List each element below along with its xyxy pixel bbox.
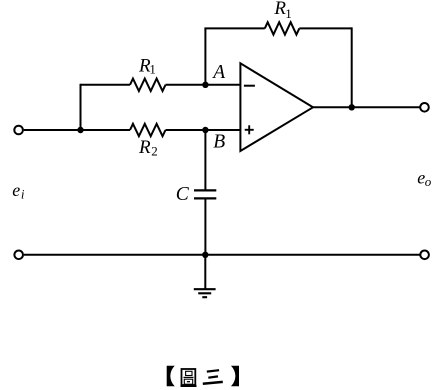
op-amp plus input symbol vertical [248,125,250,134]
ground bar 3 [202,296,207,298]
caption bracket right 】 [231,366,239,387]
svg-text:C: C [176,184,190,205]
ground bar 1 [194,288,216,290]
svg-text:R: R [138,137,151,158]
wire node B down to capacitor [204,130,206,190]
wire row A to op-amp minus input [166,84,241,86]
resistor R1 input zigzag [130,79,166,91]
wire feedback right vertical down to output node [351,27,353,107]
terminal input top circle [14,126,23,135]
op-amp plus input symbol horizontal [245,129,254,131]
ground bar 2 [198,292,211,294]
wire node A vertical to top rail [204,28,206,84]
node A junction [202,82,208,88]
node output junction [349,104,355,110]
terminal output bottom circle [420,251,429,260]
op-amp U1 triangle [240,63,313,151]
svg-text:1: 1 [285,6,292,21]
label R1 input [138,56,156,77]
svg-text:A: A [211,62,225,83]
label R2 [138,137,158,158]
wire output [313,106,420,108]
wire top rail right segment [299,27,351,29]
resistor R1 feedback zigzag [265,22,300,34]
capacitor C top plate [194,189,216,191]
wire input lead from left terminal [24,129,130,131]
node input junction [77,127,83,133]
wire input branch vertical [80,84,82,130]
label R1 feedback [273,0,291,21]
wire top rail left segment [204,27,264,29]
terminal input bottom circle [14,251,23,260]
wire row B to op-amp plus input [166,129,241,131]
wire bottom rail [24,254,420,256]
caption character 三 [203,370,223,384]
svg-text:o: o [425,174,432,189]
capacitor C bottom plate [194,197,216,199]
wire capacitor to bottom rail [204,198,206,254]
wire row A left lead [81,84,131,86]
resistor R2 zigzag [130,124,166,136]
node bottom rail junction [202,252,208,258]
op-amp minus input symbol [244,85,255,87]
label e_i [12,180,25,202]
svg-text:2: 2 [151,144,158,159]
caption bracket left 【 [167,366,175,387]
caption character 圖 [181,369,197,386]
svg-text:e: e [12,180,20,200]
svg-text:i: i [21,187,25,202]
terminal output top circle [420,103,429,112]
label e_o [417,167,432,189]
svg-text:1: 1 [149,62,156,77]
svg-text:B: B [213,132,225,153]
node B junction [202,127,208,133]
ground stub [204,255,206,289]
